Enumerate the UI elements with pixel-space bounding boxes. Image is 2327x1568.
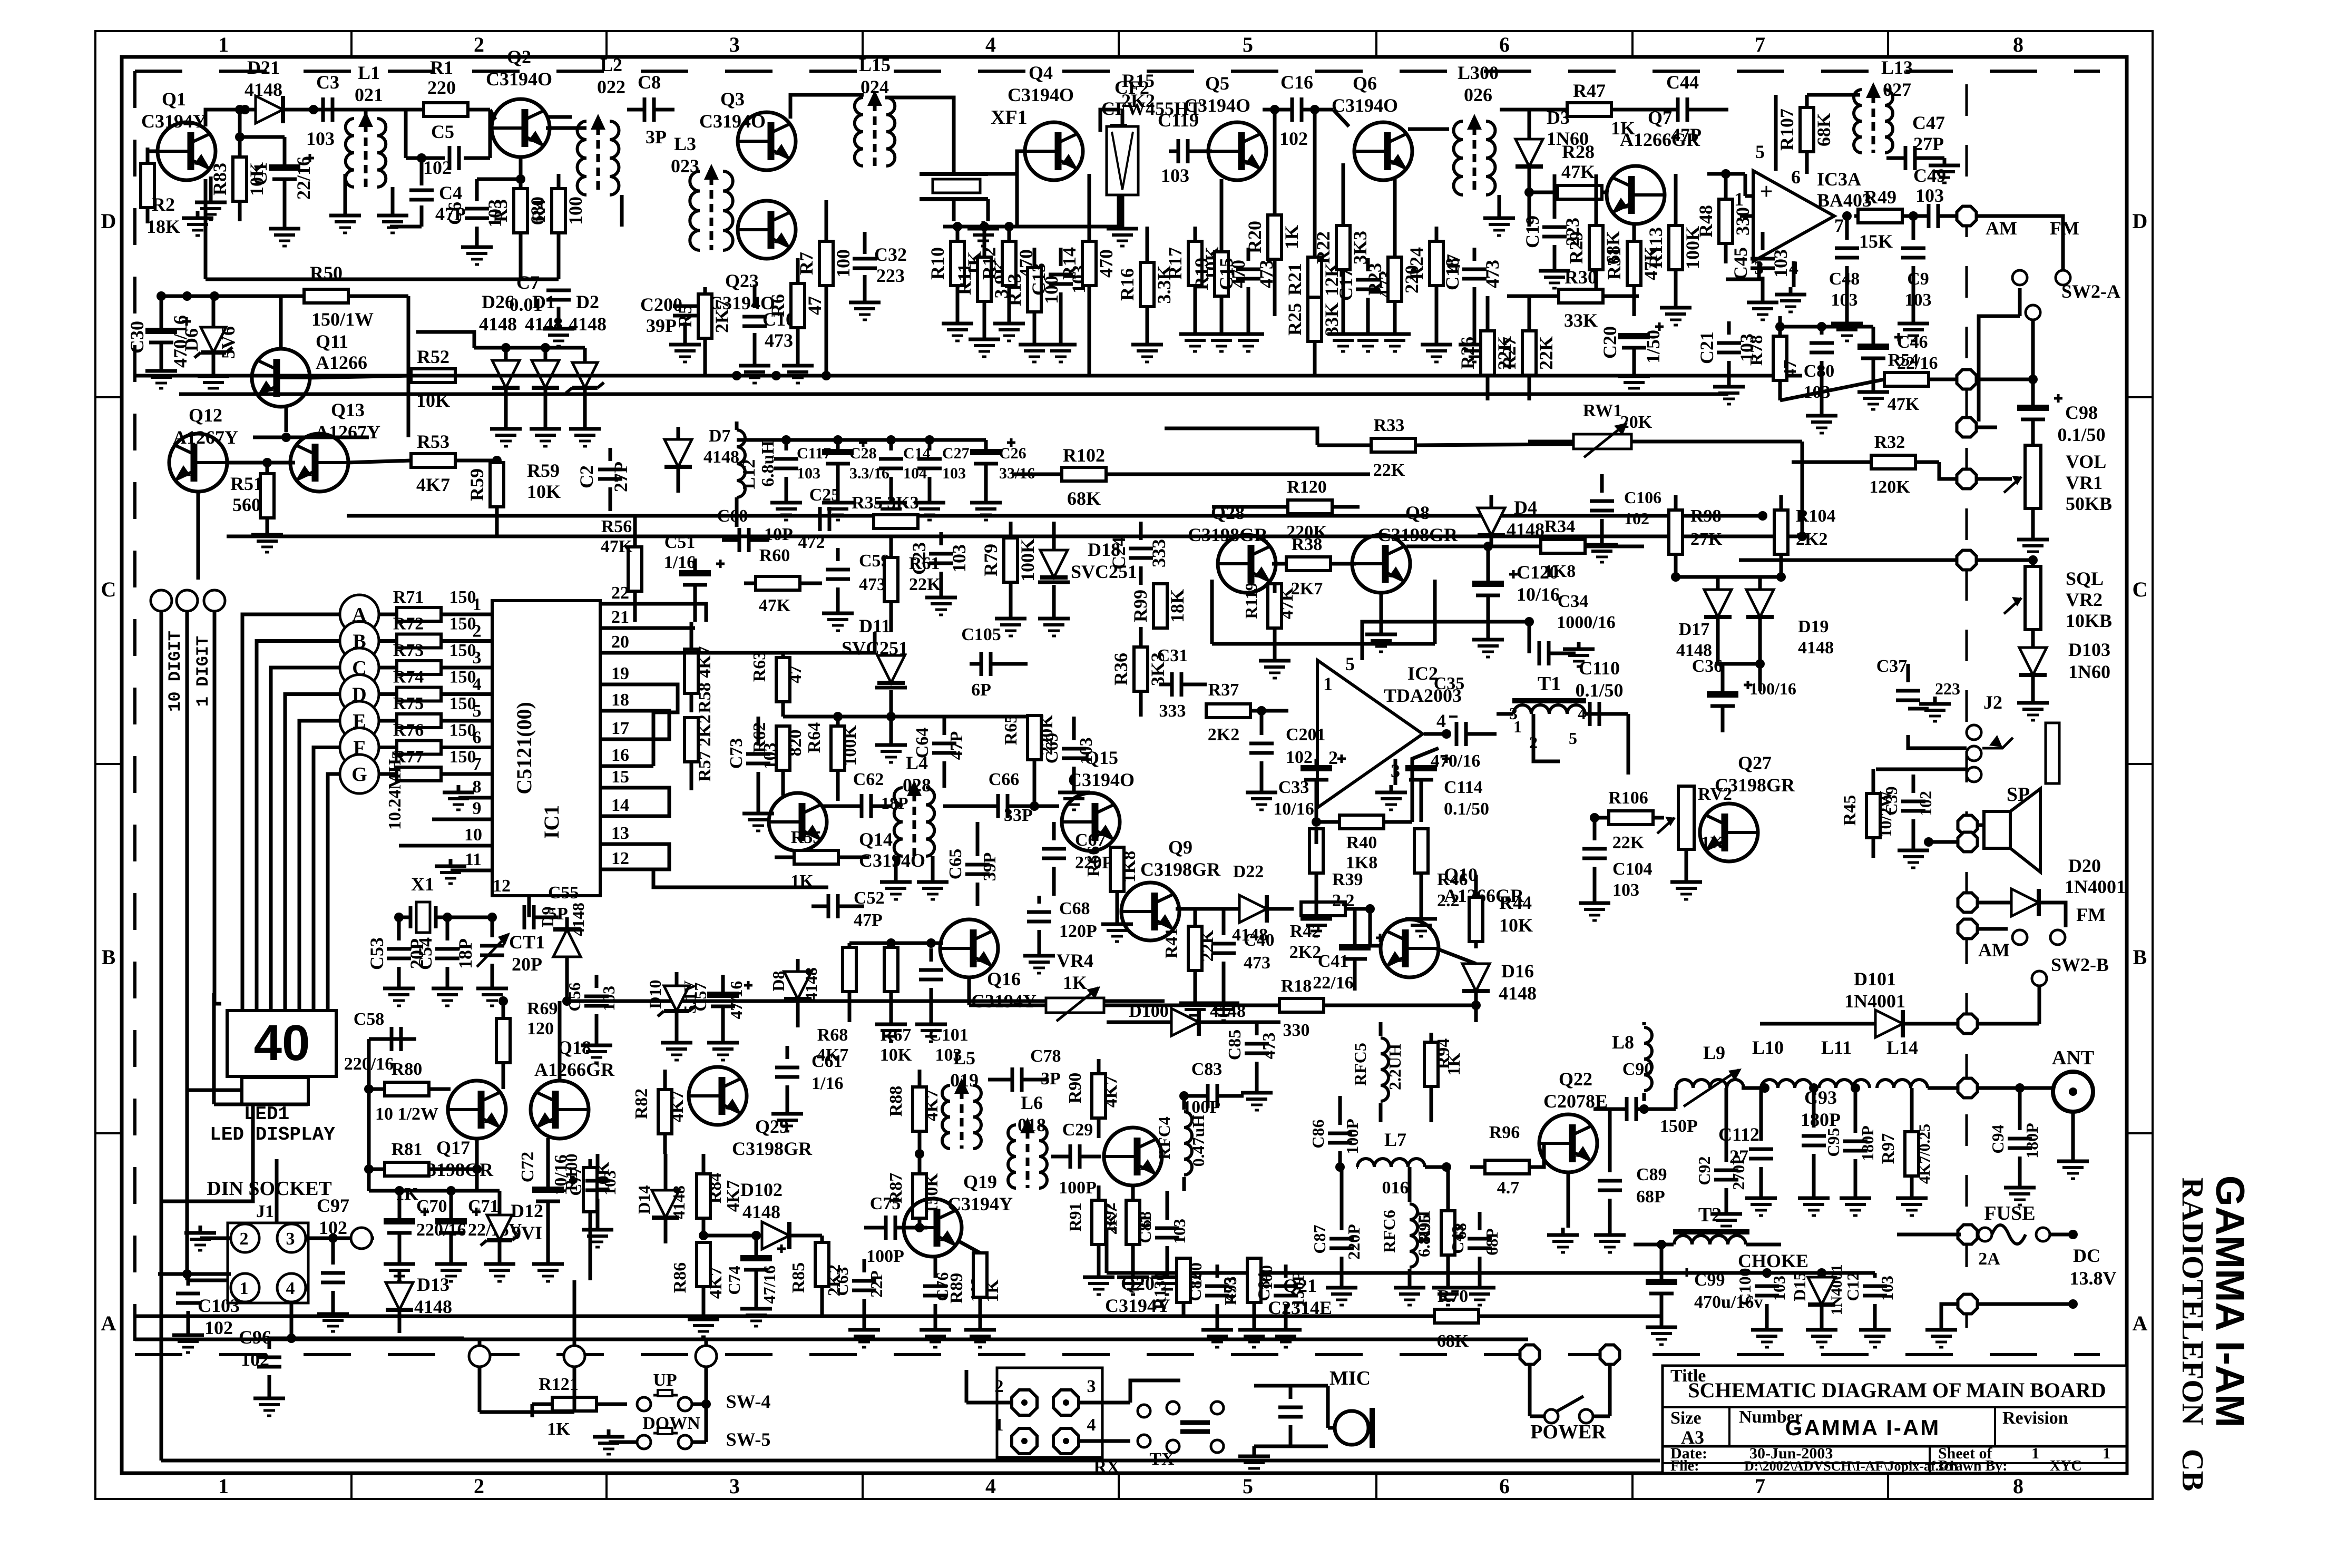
svg-text:2K2: 2K2 — [1796, 530, 1827, 549]
svg-text:L7: L7 — [1384, 1129, 1406, 1150]
capacitor C93 — [1802, 1134, 1826, 1138]
capacitor C75 — [884, 1216, 888, 1240]
svg-text:R66: R66 — [1084, 846, 1103, 877]
svg-text:R63: R63 — [750, 651, 769, 682]
svg-text:Q18: Q18 — [558, 1037, 591, 1058]
svg-text:R130: R130 — [1150, 1272, 1169, 1309]
inductor L8 — [1644, 1027, 1652, 1091]
svg-text:C41: C41 — [1318, 952, 1349, 971]
svg-text:R31: R31 — [1604, 247, 1625, 280]
switch TX RX pads — [1138, 1405, 1150, 1417]
svg-text:C25: C25 — [809, 485, 840, 505]
ground L4 — [894, 856, 898, 875]
svg-text:4148: 4148 — [525, 313, 563, 335]
capacitor C87 — [1329, 1237, 1354, 1241]
capacitor C53 — [387, 947, 411, 951]
wire bus y713 — [135, 374, 1802, 378]
wire vco rail — [783, 715, 1043, 719]
transistor Q14 — [769, 793, 827, 851]
connector SQL pad — [1957, 551, 1977, 570]
transformer L1 — [346, 119, 354, 187]
svg-text:47/16: 47/16 — [727, 981, 746, 1020]
svg-text:103: 103 — [1831, 290, 1858, 310]
transistor Q19 — [904, 1199, 962, 1257]
connector pad bottom1 — [469, 1346, 490, 1367]
svg-text:C93: C93 — [1804, 1087, 1837, 1108]
capacitor C117 — [774, 457, 798, 461]
svg-text:13: 13 — [611, 824, 629, 843]
resistor R130 — [1177, 1258, 1190, 1302]
svg-text:R53: R53 — [417, 431, 449, 452]
resistor R69 — [496, 1018, 510, 1063]
svg-text:47K: 47K — [1561, 161, 1595, 182]
capacitor C46 — [1857, 344, 1889, 350]
resistor R11 — [977, 257, 991, 301]
svg-text:100/16: 100/16 — [1749, 679, 1796, 698]
svg-text:103: 103 — [1770, 249, 1791, 278]
svg-text:120K: 120K — [1869, 477, 1910, 497]
svg-text:C95: C95 — [1824, 1128, 1843, 1157]
svg-text:C49: C49 — [1913, 165, 1946, 186]
svg-text:CF2: CF2 — [1114, 77, 1149, 98]
svg-text:SW-4: SW-4 — [726, 1391, 771, 1412]
svg-text:C27: C27 — [942, 445, 970, 462]
capacitor C76 — [923, 1285, 947, 1288]
svg-text:IC1: IC1 — [540, 805, 563, 839]
capacitor C19 — [1542, 226, 1567, 229]
svg-text:2.2: 2.2 — [1437, 891, 1460, 910]
svg-text:10KB: 10KB — [2066, 610, 2112, 631]
capacitor C120 — [1472, 581, 1504, 587]
capacitor C110 — [1588, 702, 1592, 726]
resistor R30 — [1559, 289, 1603, 303]
svg-text:R84: R84 — [706, 1173, 725, 1204]
capacitor C6 — [465, 207, 489, 211]
resistor R33 — [1371, 438, 1415, 452]
svg-text:7: 7 — [1755, 1474, 1765, 1498]
svg-text:27K: 27K — [1690, 530, 1723, 549]
resistor R106 — [1609, 811, 1653, 825]
wire left feed — [367, 1039, 371, 1191]
svg-text:C29: C29 — [1062, 1120, 1093, 1140]
svg-text:R52: R52 — [417, 346, 449, 367]
svg-text:C200: C200 — [640, 294, 682, 315]
svg-text:103: 103 — [1612, 880, 1639, 900]
diode D19 — [1746, 590, 1774, 617]
svg-text:R99: R99 — [1130, 590, 1151, 622]
svg-text:C3198GR: C3198GR — [1715, 775, 1795, 796]
svg-text:2: 2 — [995, 1377, 1004, 1396]
svg-text:39P: 39P — [646, 315, 677, 336]
svg-text:22K: 22K — [1612, 833, 1645, 852]
connector pad bottom2 — [564, 1346, 585, 1367]
svg-text:C45: C45 — [1730, 247, 1751, 280]
svg-text:2K2: 2K2 — [1208, 725, 1239, 744]
svg-text:47K: 47K — [759, 596, 791, 615]
resistor R89 — [973, 1253, 987, 1297]
svg-text:1N60: 1N60 — [2068, 661, 2110, 682]
svg-text:SQL: SQL — [2066, 568, 2104, 589]
svg-text:2.2: 2.2 — [1332, 891, 1355, 910]
svg-text:C26: C26 — [999, 445, 1026, 462]
capacitor C95 — [1843, 1140, 1868, 1143]
capacitor C40 — [1211, 942, 1236, 946]
mic capacitor — [1278, 1406, 1303, 1409]
svg-text:R91: R91 — [1065, 1202, 1084, 1231]
potentiometer VR2 SQL — [2025, 566, 2041, 630]
capacitor C52 — [827, 894, 830, 918]
svg-text:C54: C54 — [415, 937, 436, 970]
resistor R107 — [1800, 107, 1814, 152]
resistor R52 — [411, 369, 455, 383]
svg-text:Q5: Q5 — [1205, 73, 1229, 94]
svg-text:C21: C21 — [1696, 331, 1717, 364]
svg-text:9: 9 — [473, 799, 482, 818]
resistor R26 — [1481, 331, 1494, 375]
svg-text:L1: L1 — [358, 62, 380, 83]
svg-text:2K2: 2K2 — [1289, 943, 1321, 962]
resistor R93 — [1247, 1258, 1261, 1302]
svg-text:R46: R46 — [1437, 870, 1468, 889]
svg-text:100K: 100K — [840, 725, 860, 766]
svg-text:R87: R87 — [886, 1173, 906, 1204]
inductor RFC5 — [1381, 1038, 1389, 1101]
dashed board outline left — [133, 71, 136, 1355]
resistor R54 — [1884, 373, 1929, 386]
diode D7 — [664, 439, 692, 467]
varicap D11 — [877, 655, 905, 683]
svg-text:223: 223 — [1935, 679, 1960, 698]
capacitor C37 — [1896, 689, 1920, 693]
svg-text:RW1: RW1 — [1583, 401, 1622, 420]
svg-text:R12: R12 — [979, 247, 1000, 280]
resistor R42 — [1301, 902, 1345, 916]
resistor R113 — [1669, 226, 1683, 270]
svg-text:C201: C201 — [1286, 725, 1326, 744]
svg-text:D19: D19 — [1798, 617, 1829, 636]
capacitor C35 — [1424, 732, 1446, 736]
resistor R80 — [385, 1082, 429, 1096]
svg-text:0.1/50: 0.1/50 — [1444, 799, 1489, 819]
capacitor C92 — [1714, 1169, 1738, 1172]
svg-text:R86: R86 — [670, 1262, 690, 1293]
svg-text:3: 3 — [729, 33, 740, 56]
svg-text:103: 103 — [1915, 185, 1944, 206]
svg-text:103: 103 — [942, 465, 966, 482]
connector SW pad — [696, 1346, 717, 1367]
svg-text:R55: R55 — [791, 828, 822, 847]
transistor Q5 — [1208, 122, 1266, 180]
svg-text:C3194O: C3194O — [1068, 769, 1135, 790]
svg-text:MIC: MIC — [1329, 1367, 1371, 1389]
svg-text:D102: D102 — [740, 1179, 783, 1200]
wire fuse feed — [1897, 1233, 1961, 1237]
capacitor C67 — [1042, 847, 1066, 851]
svg-text:R80: R80 — [392, 1060, 423, 1079]
resistor R98 — [1669, 510, 1683, 554]
svg-text:6: 6 — [473, 728, 482, 748]
svg-text:A: A — [101, 1311, 116, 1335]
wire long rail y979 — [347, 514, 1763, 518]
svg-text:DC: DC — [2073, 1245, 2100, 1266]
svg-text:R85: R85 — [789, 1262, 808, 1293]
svg-text:19: 19 — [611, 664, 629, 683]
svg-text:Q8: Q8 — [1405, 502, 1430, 523]
capacitor C36 — [1707, 691, 1738, 698]
segment node A — [340, 595, 379, 634]
svg-text:D2: D2 — [576, 291, 599, 312]
resistor R95 — [1441, 1211, 1455, 1255]
resistor R19 — [1215, 252, 1228, 296]
svg-text:Q9: Q9 — [1168, 837, 1192, 858]
svg-text:C2: C2 — [576, 465, 597, 488]
resistor R6 — [791, 283, 805, 328]
capacitor C39 — [1901, 800, 1925, 803]
svg-text:D8: D8 — [769, 971, 788, 991]
svg-text:C3194O: C3194O — [1184, 95, 1250, 116]
svg-text:D4: D4 — [1514, 497, 1537, 518]
svg-text:C96: C96 — [239, 1327, 271, 1348]
wire long rail y1018 — [227, 535, 1802, 538]
IC pin11 — [451, 869, 492, 873]
svg-text:15: 15 — [611, 767, 629, 787]
svg-text:R92: R92 — [1100, 1202, 1119, 1231]
capacitor C21 — [1717, 341, 1741, 345]
svg-text:47/16: 47/16 — [760, 1266, 779, 1304]
svg-text:026: 026 — [1464, 84, 1492, 105]
capacitor C85 — [1245, 1042, 1269, 1046]
svg-text:C70: C70 — [416, 1197, 447, 1216]
resistor R45 — [1866, 793, 1880, 838]
svg-text:4148: 4148 — [569, 903, 588, 936]
wire q16 b rail — [849, 942, 943, 945]
transistor Q29 — [689, 1067, 747, 1125]
transformer L5 — [942, 1085, 950, 1149]
resistor R79 — [1004, 538, 1018, 582]
wire Q1 base — [148, 150, 158, 153]
svg-text:R38: R38 — [1292, 535, 1323, 554]
svg-text:1: 1 — [473, 595, 482, 614]
svg-text:R90: R90 — [1065, 1073, 1085, 1104]
resistor R1 — [390, 108, 490, 112]
svg-text:RFC5: RFC5 — [1351, 1043, 1370, 1086]
resistor R65 — [1028, 716, 1041, 760]
svg-text:VOL: VOL — [2066, 451, 2106, 472]
svg-text:Q19: Q19 — [963, 1171, 997, 1192]
transistor Q10 — [1381, 919, 1439, 977]
capacitor C77 — [585, 1179, 610, 1183]
svg-text:C17: C17 — [1335, 268, 1356, 301]
connector VOL pad — [1957, 469, 1977, 489]
svg-text:R26: R26 — [1457, 337, 1478, 369]
capacitor C104 — [1582, 847, 1607, 851]
capacitor C112 — [1749, 1148, 1773, 1151]
svg-text:Q2: Q2 — [507, 46, 531, 67]
resistor R119 — [1268, 584, 1282, 628]
resistor R5 — [698, 294, 712, 338]
capacitor C69 — [1062, 747, 1086, 751]
svg-text:L300: L300 — [1458, 62, 1499, 83]
resistor R35 — [874, 515, 918, 528]
trim resistor RV1 — [1573, 434, 1631, 449]
svg-text:7: 7 — [1755, 33, 1765, 56]
svg-text:SCHEMATIC DIAGRAM OF MAIN BOAR: SCHEMATIC DIAGRAM OF MAIN BOARD — [1688, 1378, 2106, 1402]
svg-text:2: 2 — [240, 1229, 249, 1249]
svg-text:019: 019 — [950, 1070, 979, 1091]
resistor R55 — [794, 850, 838, 864]
wire IC2 pin5 top — [1362, 622, 1529, 660]
svg-text:47P: 47P — [947, 731, 966, 760]
svg-text:SW2-A: SW2-A — [2061, 281, 2120, 302]
resistor R61 — [884, 557, 898, 602]
ground L1 right — [391, 187, 395, 208]
resistor R12 — [1002, 241, 1016, 286]
svg-text:R14: R14 — [1059, 247, 1080, 280]
svg-text:18K: 18K — [146, 216, 180, 237]
connector AM pad — [1958, 919, 1978, 939]
svg-text:L13: L13 — [1881, 57, 1913, 78]
transistor Q8 — [1352, 535, 1410, 593]
resistor R92 — [1126, 1200, 1140, 1244]
wire bottom bus R70 — [135, 1315, 1661, 1318]
svg-text:C8: C8 — [638, 72, 661, 93]
svg-text:102: 102 — [423, 157, 452, 178]
svg-text:D22: D22 — [1233, 862, 1264, 881]
svg-text:1: 1 — [2103, 1445, 2110, 1462]
svg-text:C46: C46 — [1897, 332, 1928, 352]
transistor Q15 — [1062, 793, 1120, 851]
svg-text:473: 473 — [765, 330, 793, 351]
wire bus y748 — [179, 393, 1728, 396]
diode D4 — [1478, 508, 1505, 535]
svg-text:R57 2K2: R57 2K2 — [695, 714, 715, 782]
svg-text:180P: 180P — [1801, 1109, 1841, 1130]
IC pin8 ground — [458, 796, 492, 800]
svg-text:R106: R106 — [1608, 788, 1648, 808]
svg-text:C5: C5 — [431, 121, 454, 142]
wire antenna line — [1928, 1086, 1957, 1090]
svg-text:1N4001: 1N4001 — [1844, 991, 1905, 1012]
capacitor C81 — [1155, 1227, 1179, 1230]
svg-text:R97: R97 — [1879, 1133, 1898, 1164]
transistor Q12 — [169, 434, 227, 492]
diode D16 — [1462, 964, 1490, 991]
resistor R18 — [1279, 998, 1324, 1012]
wire segment feeds — [242, 614, 340, 1011]
svg-text:4: 4 — [985, 33, 996, 56]
wire bias rail — [1015, 151, 1019, 227]
svg-text:L8: L8 — [1612, 1032, 1634, 1053]
svg-text:UP: UP — [653, 1370, 677, 1390]
svg-text:1K8: 1K8 — [1120, 851, 1139, 883]
ground L1 left — [344, 174, 347, 208]
wire led digit drives — [161, 1105, 253, 1201]
resistor R63 — [776, 658, 790, 702]
svg-text:103: 103 — [797, 465, 820, 482]
diode D26 — [492, 360, 520, 388]
svg-text:A1266GR: A1266GR — [534, 1059, 615, 1080]
svg-text:VR1: VR1 — [2066, 472, 2103, 493]
svg-text:C18: C18 — [1442, 258, 1463, 290]
svg-text:ANT: ANT — [2052, 1047, 2094, 1069]
svg-text:X1: X1 — [411, 874, 434, 895]
inductor L7 — [1357, 1159, 1425, 1167]
svg-text:C87: C87 — [1310, 1224, 1329, 1253]
svg-text:R41: R41 — [1162, 928, 1181, 959]
svg-text:R13: R13 — [1004, 273, 1025, 306]
svg-text:C32: C32 — [874, 244, 907, 265]
capacitor C41 — [1339, 944, 1371, 950]
transformer L4 — [894, 788, 903, 856]
capacitor C64 — [932, 742, 956, 746]
svg-text:R3: R3 — [490, 199, 511, 222]
capacitor C31 — [1170, 672, 1174, 697]
svg-text:1K: 1K — [547, 1419, 570, 1439]
svg-text:R51: R51 — [230, 473, 263, 494]
svg-text:R81: R81 — [392, 1140, 423, 1159]
svg-text:R49: R49 — [1864, 187, 1896, 208]
svg-text:18K: 18K — [1167, 589, 1188, 623]
svg-text:D6: D6 — [181, 328, 202, 351]
svg-text:1: 1 — [2031, 1445, 2039, 1462]
svg-text:21: 21 — [611, 607, 629, 627]
svg-text:10.24MHz: 10.24MHz — [385, 751, 405, 830]
svg-text:R18: R18 — [1281, 976, 1312, 996]
svg-text:C71: C71 — [468, 1197, 499, 1216]
svg-text:R28: R28 — [1562, 141, 1595, 162]
svg-text:C5121(00): C5121(00) — [512, 702, 536, 795]
transistor Q17 — [448, 1081, 506, 1139]
svg-text:R19: R19 — [1191, 258, 1212, 290]
svg-text:J2: J2 — [1983, 692, 2002, 713]
svg-text:4K7: 4K7 — [922, 1090, 942, 1121]
svg-text:1N4001: 1N4001 — [2065, 876, 2126, 897]
resistor R82 — [658, 1090, 672, 1134]
diode D22 — [1239, 895, 1267, 923]
dashed board outline bottom — [135, 1353, 2100, 1356]
wire left rail x306 — [160, 611, 163, 1201]
capacitor C1 — [269, 164, 300, 171]
inductor L12 — [737, 430, 745, 497]
svg-text:C62: C62 — [853, 770, 884, 789]
transistor Q4 — [1025, 122, 1083, 180]
svg-text:R76: R76 — [393, 721, 424, 740]
resistor R67 — [884, 947, 898, 992]
resistor R84 — [697, 1174, 710, 1218]
svg-text:CT1: CT1 — [509, 932, 545, 953]
svg-text:330: 330 — [1732, 207, 1753, 236]
capacitor C9 — [1901, 247, 1925, 250]
resistor R36 — [1134, 647, 1148, 691]
svg-text:C97: C97 — [317, 1195, 349, 1216]
svg-text:L14: L14 — [1886, 1037, 1918, 1058]
capacitor C106 — [1590, 499, 1614, 503]
svg-text:R30: R30 — [1565, 267, 1597, 288]
svg-text:C55: C55 — [548, 883, 579, 903]
capacitor C33 — [1301, 765, 1332, 771]
svg-text:5: 5 — [1243, 33, 1253, 56]
svg-text:DIN SOCKET: DIN SOCKET — [207, 1178, 332, 1200]
svg-text:L11: L11 — [1821, 1037, 1852, 1058]
svg-text:103: 103 — [1878, 1276, 1896, 1301]
svg-text:C35: C35 — [1434, 674, 1465, 693]
svg-text:C65: C65 — [946, 849, 965, 880]
transistor Q20 — [1104, 1128, 1162, 1185]
border inner frame — [122, 57, 2127, 1473]
svg-text:102: 102 — [1916, 791, 1935, 816]
svg-text:B: B — [2133, 945, 2147, 969]
svg-text:C3194Y: C3194Y — [971, 991, 1037, 1012]
